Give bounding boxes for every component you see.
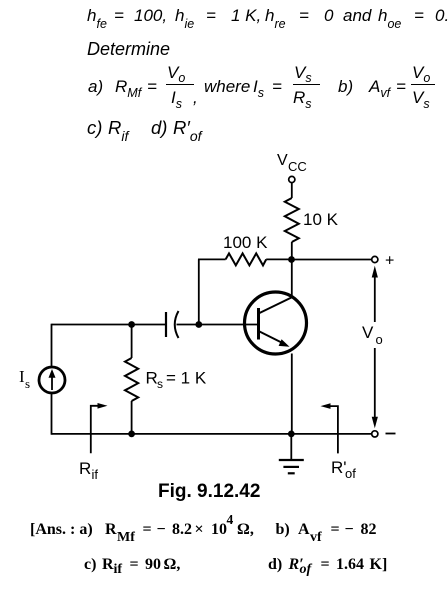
svg-text:o: o <box>376 332 383 347</box>
label Rif <box>79 459 98 482</box>
wire collector node to + terminal <box>292 259 372 261</box>
current source Is arrow <box>51 377 53 390</box>
ground bar 3 <box>288 472 295 474</box>
answers line 1 <box>30 521 93 539</box>
- output terminal <box>372 431 378 437</box>
resistor 10K <box>285 198 299 242</box>
wire bottom horizontal <box>52 433 372 435</box>
problem statement line 1 <box>87 6 107 31</box>
capacitor C1 left plate <box>165 312 167 337</box>
wire emitter down <box>291 354 293 434</box>
svg-text:R: R <box>146 369 158 388</box>
+ output terminal <box>372 256 378 262</box>
wire 100K right lead <box>266 258 291 260</box>
svg-text:Fig. 9.12.42: Fig. 9.12.42 <box>158 481 260 502</box>
answers line 2 <box>84 556 96 574</box>
svg-text:V: V <box>277 152 288 169</box>
Rif arrow <box>91 406 100 453</box>
transistor Q1 emitter stroke <box>260 332 284 344</box>
svg-text:100 K: 100 K <box>223 233 268 252</box>
transistor Q1 emitter arrowhead <box>279 339 290 347</box>
current source Is circle <box>39 367 65 393</box>
wire capacitor to base <box>177 324 258 326</box>
wire Rs bottom lead <box>131 401 133 434</box>
svg-text:CC: CC <box>288 159 307 174</box>
Vo arrow down <box>374 348 376 417</box>
ground stub <box>290 434 292 460</box>
node emitter bottom junction <box>288 431 295 438</box>
node collector junction <box>288 256 295 263</box>
wire top left horizontal <box>52 324 166 326</box>
equation row a) and b) <box>88 77 103 97</box>
resistor Rs <box>125 358 138 401</box>
wire 100K left lead <box>198 258 226 260</box>
svg-text:R: R <box>79 459 91 478</box>
svg-text:if: if <box>92 467 99 482</box>
svg-text:s: s <box>157 377 163 391</box>
wire left vertical top <box>51 324 53 367</box>
label R'of <box>331 458 356 481</box>
svg-text:10 K: 10 K <box>303 210 339 229</box>
node Rs top junction <box>128 321 135 328</box>
label Rs = 1 K <box>146 369 207 392</box>
transistor Q1 circle <box>245 292 307 354</box>
label Vo <box>362 323 383 347</box>
node base junction <box>195 321 202 328</box>
label Is <box>19 367 30 391</box>
wire 100K branch left vertical <box>198 259 200 324</box>
wire Rs top lead <box>131 325 133 359</box>
svg-text:= 1 K: = 1 K <box>166 369 207 388</box>
wire collector up <box>291 260 293 297</box>
transistor Q1 collector stroke <box>260 297 294 314</box>
ground bar 2 <box>283 466 299 468</box>
transistor Q1 base bar <box>257 308 260 340</box>
Vcc label <box>277 152 307 174</box>
problem statement line 2 <box>87 39 170 60</box>
svg-text:s: s <box>25 376 30 391</box>
label - <box>386 433 396 435</box>
wire Vcc to R1 <box>291 183 293 198</box>
svg-text:+: + <box>385 253 394 270</box>
node Rs bottom junction <box>128 431 135 438</box>
ground bar 1 <box>279 459 304 461</box>
resistor 100K <box>226 253 267 265</box>
Vcc terminal <box>289 176 295 182</box>
capacitor C1 right plate <box>175 311 179 338</box>
Vo arrow up <box>374 277 376 322</box>
R'of arrow <box>328 406 338 453</box>
wire R1 to collector node <box>291 242 293 260</box>
wire left vertical bottom <box>51 394 53 435</box>
svg-text:V: V <box>362 323 374 342</box>
svg-text:of: of <box>345 466 356 481</box>
equation row c) and d) <box>87 117 102 139</box>
